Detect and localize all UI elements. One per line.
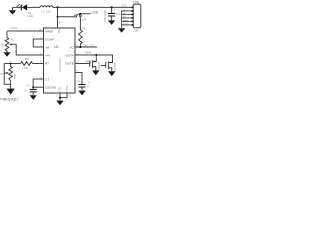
svg-text:U1: U1 <box>54 45 58 49</box>
wire (vertical to IC top pin) <box>57 7 59 28</box>
svg-text:VIN: VIN <box>59 29 61 33</box>
wire (CT pin to C2) <box>33 79 43 87</box>
svg-text:RT: RT <box>45 62 49 66</box>
svg-text:CT: CT <box>45 77 49 81</box>
svg-text:10K: 10K <box>0 43 4 48</box>
ground (P1) <box>3 51 10 57</box>
wire (Q2 gate) <box>101 65 106 67</box>
node (switch tap junction) <box>57 16 59 18</box>
ground (connector) <box>118 28 125 33</box>
svg-text:+IN: +IN <box>45 53 50 57</box>
wire (connector ground bus) <box>122 11 132 28</box>
wire (SS pin to C3) <box>75 73 82 85</box>
resistor R2 <box>4 57 43 70</box>
node (rail / IC feed junction) <box>56 6 58 8</box>
svg-text:SYNC: SYNC <box>66 85 69 92</box>
node (rail / C1 junction) <box>111 6 113 8</box>
svg-text:IRF540: IRF540 <box>98 61 101 70</box>
ground (C2) <box>30 95 37 100</box>
node (CT/DSCHG junction) <box>32 86 34 88</box>
svg-text:USB: USB <box>133 29 139 33</box>
op-amp / PWM IC U1 <box>44 28 76 93</box>
wire (VC stub) <box>75 46 97 48</box>
transistor Q1 <box>90 59 101 71</box>
ground (top-left, LED return) <box>9 7 16 14</box>
svg-text:FREQ ADJ: FREQ ADJ <box>0 98 18 102</box>
svg-text:LED: LED <box>27 14 34 18</box>
svg-text:C1: C1 <box>116 12 120 16</box>
connector CN1 <box>122 1 141 33</box>
svg-text:P2: P2 <box>0 72 4 76</box>
capacitor C2 <box>24 83 37 95</box>
svg-text:100: 100 <box>46 9 51 13</box>
svg-text:.01: .01 <box>24 89 28 93</box>
wire (P1 wiper to +IN) <box>14 44 44 55</box>
svg-text:C2: C2 <box>26 83 30 87</box>
svg-text:50K: 50K <box>13 74 17 79</box>
wire (COMP to -IN loop) <box>33 39 43 47</box>
ground (IC) <box>56 101 64 106</box>
svg-text:USB: USB <box>91 10 98 14</box>
svg-text:-IN: -IN <box>45 45 49 49</box>
potentiometer P1 <box>0 37 14 50</box>
potentiometer P2 (FREQ ADJ) <box>0 64 16 89</box>
node (P2 top junction) <box>10 63 12 65</box>
svg-text:DSCHG: DSCHG <box>45 86 57 90</box>
capacitor C1 <box>103 7 120 22</box>
svg-text:GND: GND <box>58 86 61 92</box>
wire (VREF to P1) <box>7 30 44 32</box>
ground (P2 / FREQ ADJ) <box>0 89 18 102</box>
svg-text:R4: R4 <box>82 26 86 30</box>
node (bottom pins junction) <box>59 97 61 99</box>
svg-text:VREF: VREF <box>45 29 53 33</box>
svg-text:OUTA: OUTA <box>65 53 74 57</box>
wire (top rail left) <box>13 6 22 8</box>
svg-text:OPB: OPB <box>85 59 91 63</box>
svg-text:P1: P1 <box>11 37 15 41</box>
svg-text:IRF540: IRF540 <box>114 62 117 71</box>
svg-text:uF: uF <box>87 85 90 88</box>
ground (Q1) <box>92 70 99 75</box>
svg-text:R2: R2 <box>25 57 29 61</box>
capacitor C3 <box>76 80 90 91</box>
svg-text:SG3525AN: SG3525AN <box>58 58 62 72</box>
inductor L1 <box>40 6 53 14</box>
svg-text:VREF: VREF <box>10 26 18 30</box>
svg-text:OUTB: OUTB <box>65 62 74 66</box>
svg-text:COMP: COMP <box>45 37 54 41</box>
svg-text:2.2K: 2.2K <box>22 66 28 70</box>
resistor R4 <box>79 17 95 48</box>
wire OPA (OUTA to drains) <box>75 51 113 59</box>
svg-text:10K: 10K <box>82 17 87 21</box>
wire (top rail to connector) <box>53 6 132 8</box>
wire OPB (OUTB to Q1 gate) <box>75 59 91 63</box>
ground (Q2) <box>108 71 115 76</box>
svg-text:VC: VC <box>69 45 74 49</box>
switch S1 <box>75 14 82 17</box>
svg-text:C3: C3 <box>76 80 80 84</box>
svg-text:L1: L1 <box>41 9 45 13</box>
svg-text:VCC: VCC <box>122 4 127 7</box>
wire (to switch) <box>58 16 75 18</box>
ground (C1) <box>108 20 115 25</box>
ground (C3) <box>78 91 85 96</box>
wire (IC bottom pins to ground) <box>60 93 67 101</box>
svg-text:OPA: OPA <box>85 51 91 55</box>
wire (diode to inductor) <box>27 6 40 8</box>
node (VC / R4 junction) <box>79 46 81 48</box>
LED D1 <box>17 4 34 18</box>
transistor Q2 <box>106 59 117 71</box>
wire (DSCHG pin) <box>33 86 43 88</box>
wire (USB feed) <box>79 13 91 15</box>
node (R4 tap) <box>80 13 82 15</box>
svg-text:100uF16V: 100uF16V <box>103 10 107 23</box>
pin numbers U1 <box>39 28 80 97</box>
